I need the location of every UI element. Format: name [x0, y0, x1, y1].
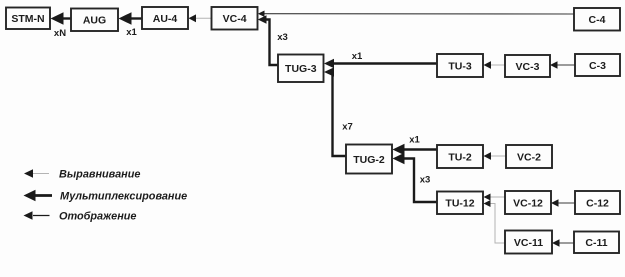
svg-text:xN: xN	[54, 28, 66, 39]
svg-text:C-3: C-3	[589, 60, 606, 72]
svg-text:AU-4: AU-4	[153, 13, 178, 25]
svg-text:x1: x1	[352, 51, 363, 62]
svg-text:TU-3: TU-3	[448, 60, 471, 72]
svg-text:Мультиплексирование: Мультиплексирование	[60, 191, 187, 203]
svg-text:VC-4: VC-4	[223, 13, 247, 25]
svg-text:TU-2: TU-2	[448, 151, 471, 163]
svg-text:Выравнивание: Выравнивание	[59, 169, 140, 181]
svg-text:C-12: C-12	[586, 197, 609, 209]
svg-text:STM-N: STM-N	[11, 13, 44, 25]
svg-text:TU-12: TU-12	[445, 198, 474, 210]
svg-text:x7: x7	[342, 122, 353, 133]
svg-text:AUG: AUG	[83, 15, 106, 27]
svg-text:C-11: C-11	[585, 237, 607, 249]
svg-text:x3: x3	[277, 32, 288, 43]
svg-text:VC-11: VC-11	[514, 237, 543, 249]
svg-text:VC-12: VC-12	[513, 197, 543, 209]
svg-text:VC-3: VC-3	[516, 61, 540, 73]
svg-text:TUG-3: TUG-3	[285, 63, 317, 75]
svg-text:TUG-2: TUG-2	[353, 154, 385, 166]
svg-text:x3: x3	[420, 175, 431, 186]
svg-text:x1: x1	[126, 27, 137, 38]
svg-text:C-4: C-4	[589, 14, 606, 26]
svg-text:Отображение: Отображение	[59, 211, 136, 223]
svg-text:x1: x1	[409, 135, 420, 146]
svg-text:VC-2: VC-2	[517, 151, 541, 163]
